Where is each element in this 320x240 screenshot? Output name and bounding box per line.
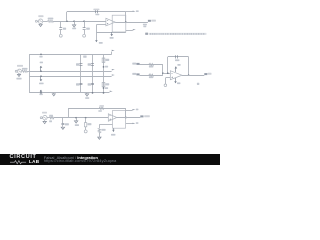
op-amp U1 power wiring box: [112, 15, 126, 32]
ground below V3: [43, 120, 46, 124]
ground branch x76: [74, 120, 77, 123]
net flag VF1 output stage1: [148, 20, 151, 22]
label R7 below: [49, 120, 52, 122]
label plus branch resistor: [101, 129, 105, 131]
label x103.5 below box: [105, 87, 108, 89]
wire branch x63 lower stub: [62, 125, 64, 127]
supply arrow VEE below U4: [174, 78, 177, 83]
label V3: [42, 112, 47, 114]
CircuitLab logo: [10, 155, 40, 164]
ground plus branch: [98, 136, 101, 139]
voltage source V2: [17, 69, 21, 73]
wire stub to flag lower right U3: [126, 123, 132, 125]
net flag lower input stage4: [136, 73, 139, 75]
wire vertical branch x81: [80, 54, 82, 93]
wire feedback rail top: [67, 11, 126, 13]
annotation text line (simulation note): [145, 33, 206, 35]
wire plus branch down: [96, 25, 98, 40]
wire branch x84.1 lower stub: [84, 29, 86, 34]
capacitor branch x84.1: [83, 28, 86, 30]
junction U1 output node: [125, 21, 127, 23]
voltage source V3: [43, 116, 47, 120]
label upper right flag U3: [136, 109, 139, 111]
component box branch x86: [84, 123, 86, 127]
wire to U4 minus: [163, 73, 170, 75]
label below output: [143, 24, 147, 26]
wire feedback rail stage3: [68, 108, 126, 110]
ground branch x74.1: [72, 24, 75, 27]
label flag VF2 ref: [132, 73, 136, 75]
node circle branch x84.1: [83, 34, 86, 37]
label R8 above: [99, 105, 104, 107]
node circle branch x60.8: [59, 34, 62, 37]
wire feedback down to output: [125, 12, 127, 22]
junction bottom rail x92.5: [92, 92, 94, 94]
label cap x84.1: [86, 28, 90, 30]
wire feedback down stage3: [125, 108, 127, 117]
junction branch x74.1: [73, 20, 75, 22]
node circle branch x86: [84, 130, 87, 133]
capacitor branch x63: [61, 124, 64, 125]
wire U4 plus branch down: [165, 78, 167, 81]
resistor R10: [149, 74, 154, 76]
label under ground x74.1: [72, 28, 76, 30]
wire upper rail: [29, 71, 111, 73]
label C2 above: [93, 9, 99, 11]
wire upper input stage4: [140, 64, 163, 66]
label under ground x76: [75, 124, 79, 126]
wire lower input stage4: [140, 75, 163, 77]
label C2 value below: [95, 14, 99, 16]
wire branch x74.1 stub: [74, 21, 76, 24]
label under bottom ground: [85, 97, 89, 99]
supply arrow down at lower rail: [40, 76, 43, 81]
wire vertical branch x92.5: [92, 54, 94, 93]
junction top rail x41: [40, 53, 42, 55]
junction upper rail x41: [40, 70, 42, 72]
wire U4 output: [182, 75, 204, 77]
label VEE below U3: [111, 134, 115, 136]
label under V2 ground: [16, 78, 21, 80]
wire U3 output: [117, 117, 141, 119]
wire V3 to R7: [47, 117, 49, 119]
wire U4 feedback down: [188, 57, 190, 75]
resistor R1: [48, 20, 54, 22]
node IN3 terminal circle: [40, 117, 42, 119]
junction branch x84.1: [83, 20, 85, 22]
supply arrow up at bottom rail: [40, 90, 43, 93]
resistor R4: [22, 70, 27, 72]
wire top rail: [29, 54, 112, 56]
junction branch x76: [75, 117, 77, 119]
wire R7 to op-amp U3: [54, 117, 108, 119]
label R10: [149, 76, 153, 78]
label flag VF1 ref: [132, 63, 136, 65]
wire R1 to op-amp U1 inverting input: [53, 21, 106, 23]
supply arrow VEE below U3: [112, 128, 115, 132]
label V2: [17, 65, 23, 67]
resistor R7: [50, 117, 54, 119]
capacitor C2 on feedback rail: [96, 10, 98, 13]
capacitor lower branch x92.5: [91, 84, 94, 85]
supply arrow VEE stage1 plus branch: [95, 40, 98, 43]
label cap upper x92.5: [88, 63, 92, 65]
label cap upper x81: [76, 63, 80, 65]
net flag lower right U3: [132, 123, 135, 126]
wire R4 to trunk: [27, 71, 29, 73]
small fleck below U4 output: [197, 83, 199, 85]
wire vertical branch x103.5: [103, 54, 105, 93]
wire U3 plus branch horizontal: [99, 124, 112, 126]
label R9: [149, 66, 153, 68]
label VF1 text: [151, 20, 156, 22]
label below top rail: [83, 56, 86, 58]
op-amp U3: [108, 114, 117, 121]
net flag lower rail: [112, 74, 115, 77]
label R7 above: [49, 115, 53, 117]
label box lower x103.5: [105, 83, 109, 85]
node IN1 terminal circle: [35, 20, 37, 22]
junction bottom rail x103.5: [103, 92, 105, 94]
label C4 below: [175, 59, 179, 61]
component box lower x103.5: [102, 82, 105, 86]
capacitor upper branch x81: [80, 64, 83, 66]
op-amp U3 power wiring box: [113, 111, 126, 129]
wire node to V2: [16, 71, 18, 73]
label below bottom rail x41: [39, 94, 42, 96]
supply arrow VCC above U4: [175, 66, 178, 72]
wire stub to VCC flag S1: [126, 11, 133, 13]
label VF2 text: [144, 115, 150, 117]
wire branch x63 stub: [62, 118, 64, 124]
wire U4 plus branch down segment2: [165, 81, 167, 84]
label VCC U4: [177, 64, 180, 66]
label below VEE arrow U1: [110, 37, 114, 39]
wire feedback trunk stage3: [68, 108, 70, 118]
wire U1 VEE rail bottom: [96, 32, 125, 34]
voltage source V1: [38, 19, 42, 23]
label cap x60.8: [63, 28, 66, 30]
wire branch x86 to node circle: [85, 127, 87, 130]
label V1: [38, 15, 43, 17]
ground on bottom rail: [85, 93, 88, 96]
net flag U4 output: [204, 73, 207, 75]
wire node to V1: [37, 21, 38, 23]
net flag VCC stage1: [133, 11, 136, 14]
label cap lower x81: [76, 83, 80, 85]
label box x86: [87, 123, 91, 125]
wire branch x76 stub: [76, 118, 78, 121]
wire plus branch down: [99, 124, 101, 128]
attribution line 2: [44, 159, 117, 163]
junction branch x86: [85, 117, 87, 119]
capacitor lower branch x81: [80, 84, 83, 85]
wire U1 plus input lead: [96, 24, 105, 26]
label above upper arrow: [40, 62, 43, 64]
wire node to V3: [41, 117, 44, 119]
wire plus branch to ground: [99, 133, 101, 136]
junction U4 output node: [188, 74, 190, 76]
label VEE arrow: [99, 42, 103, 44]
label mid x103.5: [105, 66, 108, 68]
wire lower rail: [29, 76, 111, 78]
net flag upper rail: [112, 69, 115, 72]
node IN2 terminal circle: [15, 70, 17, 72]
junction bottom rail x41: [40, 92, 42, 94]
label VCC flag: [136, 10, 139, 12]
supply arrow VEE below U1 box: [110, 32, 113, 36]
junction x103.5 below lower box: [103, 87, 105, 89]
label R4: [22, 68, 28, 70]
wire U1 output: [115, 22, 148, 24]
label lower arrow: [39, 83, 44, 85]
capacitor branch x60.8: [59, 28, 62, 30]
junction x103.5 mid: [103, 66, 105, 68]
wire U4 plus lead: [166, 77, 170, 79]
wire feedback trunk up: [66, 12, 68, 22]
component box upper x103.5: [102, 58, 105, 62]
resistor R8 on feedback rail: [99, 107, 104, 109]
op-amp U4: [170, 71, 182, 80]
wire branch x60.8 stub: [60, 21, 62, 28]
label R8 below: [98, 110, 102, 112]
net flag upper input stage4: [136, 63, 139, 65]
net flag lower right U1: [133, 29, 136, 32]
label box upper x103.5: [105, 59, 109, 61]
label below top rail junction: [39, 56, 42, 58]
label below output second row: [143, 26, 146, 27]
label cap x63: [65, 123, 69, 125]
net flag upper right U3: [132, 109, 135, 112]
wire stub to flag lower right U1: [126, 30, 133, 32]
junction lower rail x41: [40, 75, 42, 77]
capacitor C4 on U4 feedback: [176, 55, 178, 58]
junction stage4 minus node: [162, 72, 164, 74]
supply arrow up at upper rail: [40, 66, 43, 72]
capacitor upper branch x92.5: [91, 64, 94, 66]
wire U4 feedback trunk: [167, 57, 169, 73]
wire joining vertical stage4: [162, 65, 164, 76]
wire trunk vertical stage2: [29, 54, 31, 93]
net flag top rail: [112, 50, 115, 53]
wire bottom rail: [29, 92, 109, 94]
wire branch x86 stub: [85, 118, 87, 123]
label R1 value: [48, 18, 54, 20]
wire branch x60.8 lower stub: [60, 29, 62, 34]
net flag VF2 output stage3: [140, 115, 143, 117]
node circle U4 plus: [164, 84, 167, 87]
label VEE U4: [177, 82, 180, 84]
label U4 output flag: [208, 73, 212, 75]
ground below V1: [39, 23, 42, 27]
resistor plus branch to ground: [98, 128, 100, 133]
junction U3 output node: [125, 117, 127, 119]
ground stub on bottom rail x53.8: [52, 93, 55, 96]
label lower right flag U3: [136, 122, 139, 124]
wire stub to flag upper right U3: [126, 110, 132, 112]
ground branch x63: [61, 126, 64, 129]
footer bar: [0, 154, 220, 165]
resistor R9: [149, 64, 154, 66]
net flag bottom rail: [110, 91, 113, 94]
op-amp U1: [106, 18, 115, 26]
wire branch x84.1 stub: [84, 21, 86, 28]
wire V1 to R1: [43, 21, 48, 23]
ground below V2: [17, 73, 20, 76]
wire top rail corner up: [111, 52, 113, 55]
wire U4 feedback rail: [168, 56, 189, 58]
label cap lower x92.5: [88, 83, 92, 85]
junction U4 feedback tap: [167, 72, 169, 74]
junction feedback tap: [66, 20, 68, 22]
attribution line 1: [44, 156, 98, 160]
